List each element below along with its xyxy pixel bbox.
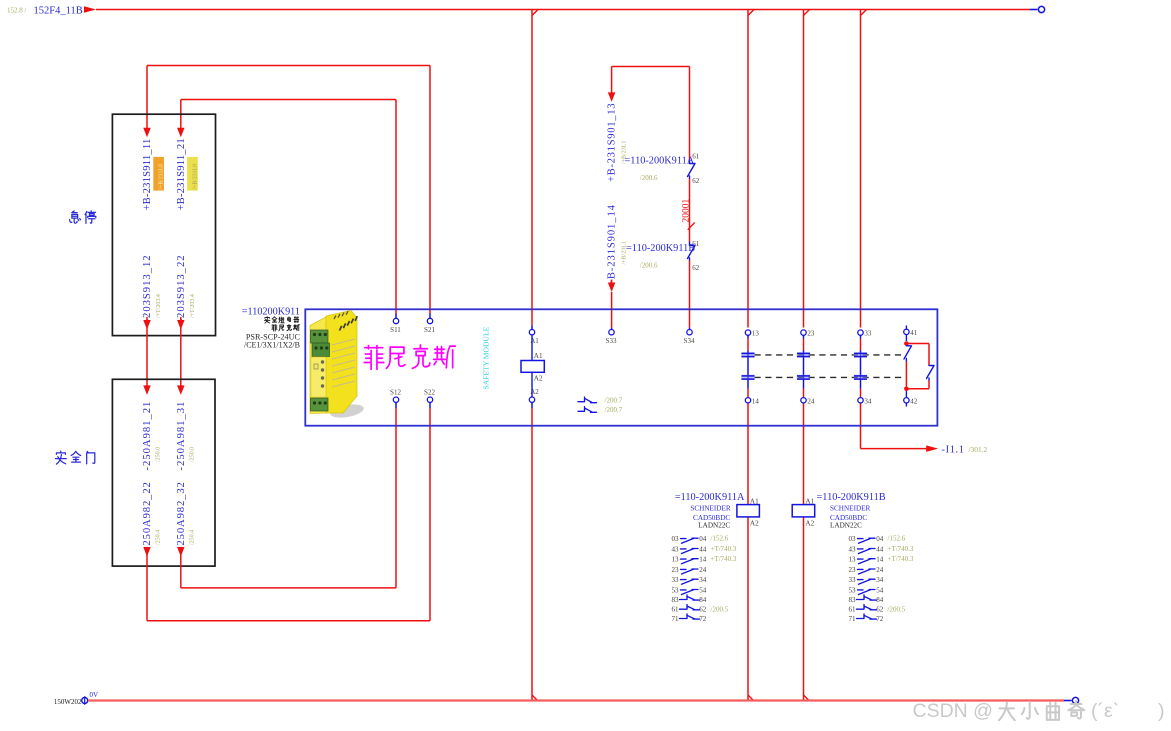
terminal S22 — [424, 389, 435, 403]
net label 20001 — [682, 199, 695, 230]
svg-text:A1: A1 — [534, 352, 543, 360]
svg-text:-250A981_31: -250A981_31 — [176, 401, 187, 471]
node 150W202 0V — [54, 691, 98, 706]
watermark CSDN — [913, 700, 1165, 722]
svg-text:=110-200K911A: =110-200K911A — [675, 492, 745, 503]
svg-text:34: 34 — [864, 397, 872, 405]
svg-text:42: 42 — [910, 397, 918, 405]
coil =110-200K911A — [675, 492, 760, 528]
label 安全门 — [56, 451, 95, 464]
svg-text:=110-200K911A: =110-200K911A — [625, 155, 695, 166]
svg-text:44: 44 — [699, 545, 707, 553]
svg-text:+B-231S901_14: +B-231S901_14 — [607, 204, 618, 286]
svg-text:-250A982_22: -250A982_22 — [142, 481, 153, 550]
contact 41-42 — [904, 326, 934, 407]
contact list K911A — [671, 535, 736, 623]
terminal label +B-231S911_21 — [176, 138, 187, 210]
label +B-231S901_13 — [607, 103, 628, 182]
box emergency stop 急停 — [112, 114, 215, 335]
svg-text:/+T/203.4: /+T/203.4 — [156, 294, 162, 318]
wire rail to contact 33 — [860, 10, 862, 328]
contact 33-34 — [854, 330, 872, 406]
svg-text:14: 14 — [699, 556, 707, 564]
svg-text:LADN22C: LADN22C — [698, 522, 730, 530]
svg-text:+T/740.3: +T/740.3 — [711, 545, 737, 553]
terminal A1 — [529, 330, 539, 345]
terminal S34 — [684, 330, 695, 346]
svg-text:/200.7: /200.7 — [605, 396, 623, 404]
svg-text:83: 83 — [671, 596, 679, 604]
arrows out of E-stop + wires to safety door — [143, 317, 184, 387]
label SAFETY MODULE — [482, 326, 491, 389]
svg-text:54: 54 — [699, 586, 707, 594]
svg-text:04: 04 — [876, 535, 884, 543]
svg-text:A2: A2 — [534, 375, 543, 383]
wire rail to contact 13 — [747, 10, 749, 328]
aux contacts 61-62/71-72 cross-ref — [578, 396, 623, 414]
svg-text:33: 33 — [848, 576, 856, 584]
junction top rail x532 — [532, 10, 538, 16]
svg-text:S21: S21 — [424, 326, 435, 334]
svg-text:62: 62 — [692, 264, 700, 272]
svg-text:=110-200K911B: =110-200K911B — [626, 243, 695, 254]
svg-text:53: 53 — [848, 586, 856, 594]
svg-text:/250.4: /250.4 — [156, 530, 162, 545]
svg-text:S33: S33 — [606, 337, 617, 345]
wire contact 14 down to coil — [747, 403, 749, 701]
svg-text:/+B/231L8: /+B/231L8 — [193, 164, 199, 190]
arrow into E-stop ch1 — [143, 66, 151, 138]
label =110-200K911A — [625, 155, 695, 182]
label SCHNEIDER CAD50BDC LADN22C (A) — [690, 505, 731, 530]
svg-text:0V: 0V — [90, 691, 99, 699]
svg-text:/250.0: /250.0 — [156, 447, 162, 462]
wire safety door ch2 to S12 — [181, 403, 396, 588]
svg-text:/152.6: /152.6 — [711, 535, 729, 543]
contact 13-14 — [741, 330, 759, 406]
svg-text:A1: A1 — [750, 498, 759, 506]
svg-text:04: 04 — [699, 535, 707, 543]
svg-text:A2: A2 — [750, 519, 759, 527]
svg-text:/200.5: /200.5 — [711, 605, 729, 613]
svg-text:+B-231S911_11: +B-231S911_11 — [142, 139, 153, 211]
svg-text:23: 23 — [807, 330, 815, 338]
svg-text:LADN22C: LADN22C — [830, 522, 862, 530]
svg-text:-I1.1: -I1.1 — [942, 444, 965, 455]
svg-text:A1: A1 — [805, 498, 814, 506]
svg-text:41: 41 — [910, 329, 918, 337]
svg-text:43: 43 — [848, 545, 856, 553]
terminal label -250A982_22 — [142, 481, 162, 550]
svg-text:13: 13 — [752, 330, 760, 338]
svg-text:-203S913_12: -203S913_12 — [142, 254, 153, 322]
terminal S21 — [424, 318, 435, 334]
svg-text:S34: S34 — [684, 337, 695, 345]
svg-text:+T/740.3: +T/740.3 — [888, 555, 914, 563]
svg-text:/200.5: /200.5 — [888, 605, 906, 613]
contact list K911B — [848, 535, 913, 623]
svg-text:61: 61 — [848, 606, 856, 614]
label +B-231S901_14 — [607, 204, 628, 286]
svg-text:=110200K911: =110200K911 — [242, 307, 300, 318]
wire S21 loop to emergency stop ch1 — [147, 66, 430, 319]
arrow from +B-231S901_14 to S33 — [608, 280, 616, 330]
svg-text:+B-231S901_13: +B-231S901_13 — [607, 103, 618, 182]
safety relay module box =110200K911 — [305, 309, 937, 425]
svg-text:34: 34 — [876, 576, 884, 584]
svg-text:=110-200K911B: =110-200K911B — [817, 492, 886, 503]
svg-text:72: 72 — [699, 615, 707, 623]
wire A2 to bottom rail — [531, 402, 533, 700]
junction bottom rail x532 — [532, 695, 538, 701]
svg-text:62: 62 — [692, 177, 700, 185]
label 菲尼克斯 magenta — [364, 345, 455, 369]
svg-text:62: 62 — [699, 606, 707, 614]
label 菲尼克斯 small — [272, 324, 300, 331]
terminal label -250A981_21 — [142, 401, 162, 471]
svg-text:20001: 20001 — [682, 199, 692, 223]
junction top rail x748 — [748, 10, 754, 16]
mechanical linkage dashed lines — [755, 355, 903, 378]
svg-text:S12: S12 — [390, 389, 401, 397]
label -I1.1 /301.2 — [942, 444, 988, 455]
wire contact 24 down to coil — [803, 403, 805, 701]
wire to NC contact K911A 61 — [689, 67, 691, 161]
svg-text:33: 33 — [864, 330, 872, 338]
arrows out of safety door — [143, 547, 184, 621]
wire loop +B-231S901 — [612, 66, 690, 68]
label SCHNEIDER CAD50BDC LADN22C (B) — [830, 505, 871, 530]
svg-text:84: 84 — [876, 596, 884, 604]
terminal S33 — [606, 330, 617, 346]
node connection point bottom rail right — [1072, 697, 1078, 703]
svg-text:24: 24 — [699, 566, 707, 574]
svg-text:33: 33 — [671, 576, 679, 584]
coil K911 A1-A2 — [521, 335, 544, 397]
svg-text:+T/740.3: +T/740.3 — [711, 555, 737, 563]
wire rail to contact 23 — [803, 10, 805, 328]
wire S11 loop to emergency stop ch2 — [181, 100, 396, 319]
arrow to +B-231S901_13 — [608, 67, 616, 102]
svg-text:14: 14 — [876, 556, 884, 564]
wire 62 to 61, net 20001 — [689, 179, 691, 242]
svg-text:152F4_11B: 152F4_11B — [34, 6, 83, 17]
terminal label -203S913_12 — [142, 254, 162, 322]
label =110-200K911B — [626, 243, 695, 270]
svg-text:SCHNEIDER: SCHNEIDER — [830, 505, 871, 513]
svg-text:/250.4: /250.4 — [190, 530, 196, 545]
svg-text:/200.7: /200.7 — [605, 406, 623, 414]
label 安全继电器 — [265, 317, 299, 323]
junction bottom rail x748 — [748, 695, 754, 701]
terminal label -250A981_31 — [176, 401, 196, 471]
svg-text:/200.6: /200.6 — [640, 262, 658, 270]
label =110200K911 — [242, 307, 300, 318]
svg-text:43: 43 — [671, 545, 679, 553]
svg-text:54: 54 — [876, 586, 884, 594]
wire contact 34 to -I1.1 — [861, 403, 930, 449]
junction top rail x860 — [861, 10, 867, 16]
svg-text:44: 44 — [876, 545, 884, 553]
svg-text:152.8 /: 152.8 / — [7, 6, 27, 14]
svg-text:83: 83 — [848, 596, 856, 604]
svg-text:+B-231S911_21: +B-231S911_21 — [176, 138, 187, 210]
svg-text:CSDN @: CSDN @ — [913, 700, 993, 722]
highlight +B/231L8 orange — [153, 157, 164, 191]
wire rail to A1 — [531, 10, 533, 330]
wire safety door ch1 to S22 — [147, 403, 430, 621]
svg-text:-203S913_22: -203S913_22 — [176, 254, 187, 322]
terminal label -250A982_32 — [176, 481, 196, 550]
svg-text:/152.6: /152.6 — [888, 535, 906, 543]
interruption arrow -I1.1 — [926, 445, 938, 452]
wire bottom rail 0V — [88, 699, 1071, 701]
NC contact =110-200K911A 61-62 — [688, 153, 700, 186]
junction bottom rail x803 — [804, 695, 810, 701]
svg-text:/250.0: /250.0 — [190, 447, 196, 462]
svg-text:13: 13 — [848, 556, 856, 564]
svg-text:03: 03 — [671, 535, 679, 543]
wire 62 to S34 — [689, 261, 691, 330]
svg-text:34: 34 — [699, 576, 707, 584]
svg-text:(´ε`: (´ε` — [1091, 700, 1119, 722]
svg-text:53: 53 — [671, 586, 679, 594]
NC contact =110-200K911B 61-62 — [688, 240, 700, 272]
svg-text:24: 24 — [876, 566, 884, 574]
wire top rail 152F4_11B — [96, 9, 1038, 11]
svg-text:S22: S22 — [424, 389, 435, 397]
contact 23-24 — [797, 330, 815, 406]
svg-text:/+T/203.4: /+T/203.4 — [190, 294, 196, 318]
svg-text:62: 62 — [876, 606, 884, 614]
svg-text:/301.2: /301.2 — [969, 445, 988, 454]
arrows into safety door — [143, 385, 184, 395]
svg-text:+T/740.3: +T/740.3 — [888, 545, 914, 553]
label /CE1/3X1/1X2/B — [244, 341, 300, 350]
svg-text:23: 23 — [848, 566, 856, 574]
svg-text:03: 03 — [848, 535, 856, 543]
terminal label +B-231S911_11 — [142, 139, 153, 211]
svg-text:84: 84 — [699, 596, 707, 604]
coil =110-200K911B — [792, 492, 886, 528]
net 152F4_11B label — [7, 6, 83, 17]
svg-text:14: 14 — [752, 397, 760, 405]
terminal S11 — [390, 318, 401, 334]
svg-text:72: 72 — [876, 615, 884, 623]
terminal label -203S913_22 — [176, 254, 196, 322]
highlight +B/231L8 yellow — [187, 157, 198, 191]
svg-text:): ) — [1158, 700, 1165, 722]
svg-text:/+B/231L8: /+B/231L8 — [159, 164, 165, 190]
svg-text:24: 24 — [807, 397, 815, 405]
label PSR-SCP-24UC — [246, 332, 301, 341]
svg-text:71: 71 — [848, 615, 856, 623]
svg-text:A2: A2 — [805, 519, 814, 527]
device photo PSR safety relay — [310, 311, 365, 420]
svg-text:SCHNEIDER: SCHNEIDER — [690, 505, 731, 513]
box safety door 安全门 — [112, 379, 215, 566]
interruption arrow 152F4_11B — [84, 6, 96, 13]
svg-text:-250A981_21: -250A981_21 — [142, 401, 153, 471]
terminal A2 — [529, 388, 539, 403]
svg-text:23: 23 — [671, 566, 679, 574]
svg-text:13: 13 — [671, 556, 679, 564]
svg-text:150W202: 150W202 — [54, 698, 82, 706]
svg-text:SAFETY MODULE: SAFETY MODULE — [482, 326, 491, 389]
junction top rail x803 — [804, 10, 810, 16]
svg-text:61: 61 — [671, 606, 679, 614]
svg-text:/CE1/3X1/1X2/B: /CE1/3X1/1X2/B — [244, 341, 300, 350]
svg-text:S11: S11 — [390, 326, 401, 334]
node connection point top rail right — [1038, 6, 1044, 12]
svg-text:-250A982_32: -250A982_32 — [176, 481, 187, 550]
label 急停 — [70, 211, 96, 223]
svg-text:/200.6: /200.6 — [640, 174, 658, 182]
arrow into E-stop ch2 — [177, 100, 185, 138]
svg-text:71: 71 — [671, 615, 679, 623]
terminal S12 — [390, 389, 401, 403]
